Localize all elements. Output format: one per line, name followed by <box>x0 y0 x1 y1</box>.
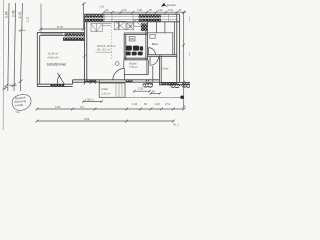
bath fixtures dark row 1 <box>126 46 139 51</box>
left wing: top wall hatched segment <box>63 33 85 41</box>
svg-text:2.86: 2.86 <box>5 11 9 18</box>
main top wall outer line <box>84 14 179 22</box>
fence end dot <box>180 96 183 99</box>
kitchen counter units <box>91 23 111 31</box>
svg-text:Schlafzimmer: Schlafzimmer <box>47 62 68 66</box>
svg-text:1.36: 1.36 <box>137 9 142 12</box>
bath fixtures dark row 2 <box>126 46 143 55</box>
window band east <box>161 14 177 22</box>
bottom wall hatch near step <box>126 80 133 82</box>
svg-text:1.96: 1.96 <box>99 4 105 8</box>
left dimension line 2 <box>14 3 16 91</box>
Bad room east wall <box>173 22 175 55</box>
bathroom left wall <box>119 22 126 60</box>
svg-text:Nfl. 10,2 m²: Nfl. 10,2 m² <box>97 47 111 51</box>
top dimension numbers <box>106 9 182 12</box>
Bad sink <box>150 34 155 38</box>
svg-text:96: 96 <box>144 102 147 106</box>
left wing: top wall outer lines <box>37 32 84 35</box>
svg-text:7,66 m²: 7,66 m² <box>129 65 138 69</box>
svg-text:1.56 m: 1.56 m <box>85 98 94 102</box>
svg-text:2.46: 2.46 <box>11 10 15 17</box>
bottom-right wall hatch <box>161 83 177 85</box>
cellar stair treads <box>116 83 122 97</box>
kitchen walls <box>124 60 149 75</box>
left edge tick <box>2 86 8 91</box>
svg-text:Keller: Keller <box>102 87 109 91</box>
Bad door swing <box>148 48 155 55</box>
washing machine box <box>129 36 135 41</box>
bush cluster 1 <box>143 80 153 88</box>
small fixture box <box>134 20 142 27</box>
revision stamp ellipse <box>11 93 32 111</box>
cellar stair box <box>99 83 125 97</box>
window band west <box>104 14 139 22</box>
entrance door X left <box>115 21 127 30</box>
svg-text:Dat.: Dat. <box>16 110 21 114</box>
Bad room bottom wall <box>148 55 177 57</box>
svg-text:9.56: 9.56 <box>84 117 90 121</box>
Bad room top wall <box>148 22 174 33</box>
hatch C row gap <box>139 17 161 19</box>
svg-text:3.2: 3.2 <box>188 52 190 56</box>
bathroom right wall <box>146 22 148 60</box>
svg-text:8.76: 8.76 <box>57 25 63 29</box>
bathroom top wall <box>124 33 147 35</box>
corridor wall stub <box>152 66 154 82</box>
bush cluster 3 <box>181 83 190 87</box>
svg-text:Norden: Norden <box>167 3 177 7</box>
bottom dim numbers <box>55 102 171 109</box>
east room door swing <box>150 57 159 66</box>
bottom wall hatched segment <box>84 80 97 82</box>
page fold edge line <box>2 0 5 130</box>
svg-text:1.51: 1.51 <box>165 102 171 106</box>
dim line above left wing <box>39 28 85 31</box>
main top wall hatched segment east <box>139 15 161 22</box>
svg-text:3.26: 3.26 <box>55 105 61 109</box>
left wing: outer left wall <box>37 32 39 86</box>
left wing: bottom wall hatched segment <box>50 84 65 86</box>
cellar box left edge extension <box>98 80 100 83</box>
cellar width dim line <box>82 100 103 103</box>
svg-text:2.26: 2.26 <box>122 9 127 12</box>
svg-text:1.2: 1.2 <box>25 17 29 22</box>
bottom-right exterior wall <box>159 82 190 84</box>
fence line <box>99 96 181 98</box>
left dim mid tick <box>18 28 25 32</box>
right exterior wall <box>177 14 180 82</box>
main bottom wall <box>73 80 159 84</box>
left dimension line 3 <box>20 3 22 91</box>
bathroom bottom wall <box>124 58 147 60</box>
svg-text:WM: WM <box>130 38 134 41</box>
bush cluster 2 <box>170 84 180 88</box>
right dimension line <box>182 11 185 109</box>
svg-text:2.0: 2.0 <box>80 105 84 109</box>
svg-text:4.56: 4.56 <box>188 16 190 22</box>
svg-text:1.51: 1.51 <box>168 9 173 12</box>
small dim bracket 2.35 <box>133 90 151 93</box>
svg-text:2.35: 2.35 <box>138 87 144 91</box>
svg-text:3.15: 3.15 <box>18 12 22 19</box>
middle wall <box>84 14 86 84</box>
svg-text:1.36: 1.36 <box>132 102 138 106</box>
svg-text:16,36 m²: 16,36 m² <box>48 52 59 56</box>
svg-text:Diele: Diele <box>163 67 169 71</box>
small dim 80 line <box>150 92 162 95</box>
bottom dimension chain 1 <box>36 108 186 111</box>
svg-text:Wohnfl. 40,6 m²: Wohnfl. 40,6 m² <box>97 44 115 48</box>
dashed roof line <box>111 20 113 60</box>
bathroom right wall hatch <box>141 23 147 31</box>
left wing corner extension line <box>40 4 42 33</box>
svg-text:Bl. 2: Bl. 2 <box>174 122 180 126</box>
left dimension line 1 <box>8 3 9 91</box>
svg-text:1,56 m²: 1,56 m² <box>102 92 111 96</box>
svg-text:1.26: 1.26 <box>158 9 163 12</box>
hall door swing <box>113 68 125 80</box>
bottom door X <box>90 80 96 84</box>
left wing: bottom wall <box>37 84 72 86</box>
main top wall hatched segment west <box>85 15 104 22</box>
svg-text:1.26: 1.26 <box>154 102 160 106</box>
interior wall east of hall <box>159 56 161 85</box>
living area text underline <box>96 51 113 53</box>
bedroom door swing <box>57 73 64 84</box>
svg-text:Küche: Küche <box>129 61 137 65</box>
top-left vertical dimension extension line <box>82 2 85 29</box>
north arrow <box>161 3 167 7</box>
svg-text:(4,96 m²): (4,96 m²) <box>48 56 59 60</box>
wall tick <box>83 54 87 57</box>
door knob circle <box>115 62 119 66</box>
bottom dimension chain 2 <box>36 120 175 123</box>
svg-text:Bad: Bad <box>152 42 158 46</box>
left dim bottom ticks <box>5 80 23 88</box>
entrance door X right <box>127 23 134 30</box>
svg-text:80: 80 <box>152 90 155 94</box>
hatch B row gap <box>85 17 104 19</box>
top dimension chain <box>103 11 187 14</box>
